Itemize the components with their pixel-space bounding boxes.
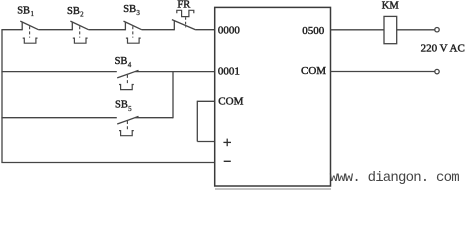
thermal relay contact FR (NC) [172, 10, 196, 30]
wire 0001 rail left segment [1, 71, 116, 73]
wire FR to PLC input 0000 [196, 29, 215, 31]
wire output 0500 to KM [331, 29, 385, 31]
label minus terminal [224, 161, 231, 162]
contactor coil KM [384, 16, 397, 43]
svg-text:2: 2 [80, 10, 84, 18]
svg-text:0001: 0001 [218, 66, 240, 78]
svg-text:4: 4 [128, 61, 132, 69]
svg-text:SB: SB [115, 100, 128, 111]
label FR [177, 0, 190, 11]
svg-text:0000: 0000 [218, 25, 241, 37]
wire SB5 to junction [135, 117, 173, 119]
pushbutton SB2 (NC) [70, 21, 88, 43]
label SB5 [115, 100, 132, 113]
svg-text:3: 3 [136, 9, 140, 17]
label SB1 [17, 6, 34, 19]
svg-text:SB: SB [115, 56, 128, 67]
wire top rail segment 1 [1, 29, 22, 31]
label plus terminal [223, 139, 231, 147]
svg-text:220 V AC: 220 V AC [421, 43, 465, 55]
wire jumper to plus terminal [197, 141, 215, 143]
svg-text:1: 1 [31, 10, 35, 18]
svg-text:SB: SB [123, 4, 136, 15]
wire COM jumper vertical [196, 101, 198, 142]
wire output COM to terminal [331, 71, 435, 73]
svg-text:5: 5 [128, 105, 132, 113]
PLC box bottom echo line [215, 188, 331, 190]
svg-text:SB: SB [17, 6, 30, 17]
wire SB5 rail left segment [1, 117, 116, 119]
svg-text:COM: COM [301, 65, 326, 77]
wire segment SB3-FR [142, 29, 174, 31]
left vertical rail [1, 30, 3, 163]
label SB3 [123, 4, 140, 17]
pushbutton SB1 (NC) [20, 21, 38, 43]
svg-text:KM: KM [382, 1, 400, 12]
svg-text:FR: FR [177, 0, 190, 11]
pushbutton SB5 (NO) [117, 116, 138, 135]
wire segment SB1-SB2 [39, 29, 73, 31]
svg-text:0500: 0500 [302, 25, 325, 37]
label KM [382, 1, 400, 12]
svg-text:COM: COM [218, 95, 243, 107]
wire KM to terminal [397, 29, 435, 31]
pushbutton SB4 (NO) [117, 70, 138, 89]
svg-text:www. diangon. com: www. diangon. com [330, 170, 460, 186]
terminal circle L1 [435, 28, 439, 32]
wire COM jumper horizontal [197, 100, 215, 102]
PLC box [215, 7, 331, 186]
wire segment SB2-SB3 [89, 29, 126, 31]
label SB4 [115, 56, 132, 69]
terminal circle N [435, 69, 439, 73]
wire vertical junction SB5 branch to 0001 rail [172, 72, 174, 119]
wire SB4 to PLC input 0001 [135, 71, 215, 73]
label SB2 [67, 6, 84, 19]
pushbutton SB3 (NC) [124, 21, 142, 43]
wire bottom rail to minus terminal [1, 162, 215, 164]
svg-text:SB: SB [67, 6, 80, 17]
